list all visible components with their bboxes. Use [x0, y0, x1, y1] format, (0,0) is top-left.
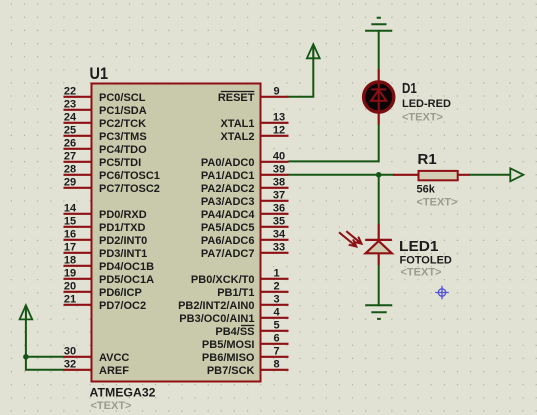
svg-text:PC2/TCK: PC2/TCK — [99, 118, 146, 130]
svg-text:8: 8 — [273, 358, 279, 370]
svg-text:XTAL2: XTAL2 — [220, 131, 254, 143]
svg-text:PC1/SDA: PC1/SDA — [99, 105, 147, 117]
svg-text:33: 33 — [273, 241, 285, 253]
svg-text:25: 25 — [64, 124, 76, 136]
svg-text:LED-RED: LED-RED — [402, 98, 451, 110]
svg-text:24: 24 — [64, 111, 77, 123]
svg-text:21: 21 — [64, 293, 76, 305]
svg-text:PB2/INT2/AIN0: PB2/INT2/AIN0 — [178, 300, 254, 312]
svg-text:PB1/T1: PB1/T1 — [217, 287, 254, 299]
svg-text:15: 15 — [64, 215, 76, 227]
svg-text:9: 9 — [273, 85, 279, 97]
svg-text:34: 34 — [273, 228, 286, 240]
svg-text:PA0/ADC0: PA0/ADC0 — [201, 157, 255, 169]
svg-text:PC5/TDI: PC5/TDI — [99, 157, 141, 169]
svg-text:XTAL1: XTAL1 — [220, 118, 254, 130]
svg-text:18: 18 — [64, 254, 76, 266]
svg-text:PB6/MISO: PB6/MISO — [202, 352, 255, 364]
svg-text:<TEXT>: <TEXT> — [91, 400, 132, 412]
svg-text:1: 1 — [273, 267, 279, 279]
svg-text:35: 35 — [273, 215, 285, 227]
svg-text:PC6/TOSC1: PC6/TOSC1 — [99, 170, 160, 182]
svg-text:40: 40 — [273, 150, 285, 162]
svg-text:5: 5 — [273, 319, 279, 331]
svg-text:R1: R1 — [418, 151, 437, 168]
svg-text:<TEXT>: <TEXT> — [402, 111, 443, 123]
svg-text:27: 27 — [64, 150, 76, 162]
svg-text:6: 6 — [273, 332, 279, 344]
svg-text:56k: 56k — [417, 184, 436, 196]
svg-text:AREF: AREF — [99, 365, 129, 377]
svg-text:13: 13 — [273, 111, 285, 123]
svg-text:39: 39 — [273, 163, 285, 175]
svg-text:38: 38 — [273, 176, 285, 188]
svg-text:20: 20 — [64, 280, 76, 292]
svg-text:PD6/ICP: PD6/ICP — [99, 287, 142, 299]
svg-text:U1: U1 — [90, 65, 109, 83]
svg-text:16: 16 — [64, 228, 76, 240]
svg-text:7: 7 — [273, 345, 279, 357]
svg-text:PA6/ADC6: PA6/ADC6 — [201, 235, 255, 247]
svg-text:4: 4 — [273, 306, 280, 318]
svg-text:PB5/MOSI: PB5/MOSI — [202, 339, 255, 351]
svg-text:PA5/ADC5: PA5/ADC5 — [201, 222, 255, 234]
svg-text:PA4/ADC4: PA4/ADC4 — [201, 209, 255, 221]
svg-text:PD3/INT1: PD3/INT1 — [99, 248, 147, 260]
svg-text:PA1/ADC1: PA1/ADC1 — [201, 170, 255, 182]
svg-text:28: 28 — [64, 163, 76, 175]
svg-text:PC7/TOSC2: PC7/TOSC2 — [99, 183, 160, 195]
svg-text:PA7/ADC7: PA7/ADC7 — [201, 248, 255, 260]
svg-text:19: 19 — [64, 267, 76, 279]
svg-text:LED1: LED1 — [399, 238, 439, 255]
svg-text:PD5/OC1A: PD5/OC1A — [99, 274, 154, 286]
svg-text:36: 36 — [273, 202, 285, 214]
svg-text:<TEXT>: <TEXT> — [417, 197, 458, 209]
svg-text:PD0/RXD: PD0/RXD — [99, 209, 147, 221]
svg-text:PC3/TMS: PC3/TMS — [99, 131, 147, 143]
svg-text:PD2/INT0: PD2/INT0 — [99, 235, 147, 247]
svg-text:14: 14 — [64, 202, 77, 214]
svg-text:2: 2 — [273, 280, 279, 292]
svg-text:PD4/OC1B: PD4/OC1B — [99, 261, 154, 273]
svg-text:D1: D1 — [402, 80, 417, 97]
svg-text:PB4/SS: PB4/SS — [215, 326, 254, 338]
svg-text:<TEXT>: <TEXT> — [401, 266, 442, 278]
svg-text:PB7/SCK: PB7/SCK — [207, 365, 255, 377]
svg-text:RESET: RESET — [218, 92, 255, 104]
svg-text:32: 32 — [64, 358, 76, 370]
svg-text:PD1/TXD: PD1/TXD — [99, 222, 146, 234]
svg-text:23: 23 — [64, 98, 76, 110]
svg-text:37: 37 — [273, 189, 285, 201]
svg-text:PB3/OC0/AIN1: PB3/OC0/AIN1 — [179, 313, 254, 325]
svg-text:PA3/ADC3: PA3/ADC3 — [201, 196, 255, 208]
svg-text:12: 12 — [273, 124, 285, 136]
svg-text:30: 30 — [64, 345, 76, 357]
svg-text:ATMEGA32: ATMEGA32 — [90, 386, 156, 400]
svg-text:PB0/XCK/T0: PB0/XCK/T0 — [191, 274, 255, 286]
svg-text:PC0/SCL: PC0/SCL — [99, 92, 146, 104]
svg-text:17: 17 — [64, 241, 76, 253]
svg-text:26: 26 — [64, 137, 76, 149]
svg-text:3: 3 — [273, 293, 279, 305]
svg-text:FOTOLED: FOTOLED — [400, 255, 452, 267]
svg-text:22: 22 — [64, 85, 76, 97]
svg-text:AVCC: AVCC — [99, 352, 129, 364]
svg-text:PD7/OC2: PD7/OC2 — [99, 300, 146, 312]
svg-text:PA2/ADC2: PA2/ADC2 — [201, 183, 255, 195]
svg-text:29: 29 — [64, 176, 76, 188]
svg-text:PC4/TDO: PC4/TDO — [99, 144, 147, 156]
